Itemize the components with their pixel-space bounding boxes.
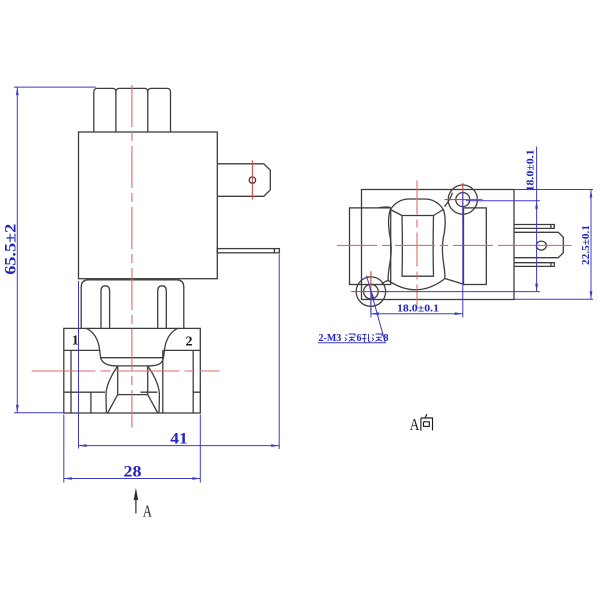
svg-text:22.5±0.1: 22.5±0.1 xyxy=(581,225,592,265)
funnel flare left xyxy=(106,366,118,413)
bottom pin tick xyxy=(550,263,552,267)
DIN connector plate (edge view) xyxy=(217,249,279,253)
view label xiang CJK xyxy=(421,414,433,430)
bottom hole crosshair vertical xyxy=(370,271,372,312)
middle spade pin hole xyxy=(536,241,546,250)
svg-text:65.5±2: 65.5±2 xyxy=(2,224,19,275)
mounting hole top-right inner xyxy=(456,193,470,207)
dim 65.5 extension line top xyxy=(14,86,96,88)
mounting hole top-right outer xyxy=(448,185,477,214)
leader text CJK shen2 xyxy=(372,334,382,341)
dim 18 vert arrow top xyxy=(535,201,538,209)
leader arrow xyxy=(370,287,375,300)
arc nut to lower-left hole boss xyxy=(382,280,388,283)
dim 18 horiz extension left xyxy=(370,297,372,318)
dim 65.5 arrow top xyxy=(16,87,19,95)
centerline horizontal (left view) xyxy=(32,370,220,372)
valve body shoulder line left xyxy=(64,349,100,351)
bell fillet left xyxy=(87,328,101,358)
dim 18 vert extension bottom xyxy=(379,291,540,293)
dim 41 arrow right xyxy=(271,444,279,447)
svg-text:8: 8 xyxy=(384,333,389,344)
hex nut barrel (end-on) xyxy=(388,199,445,290)
counterbore line right xyxy=(141,391,201,393)
dim 41 extension line right xyxy=(278,254,280,449)
dim 65.5 extension line bottom xyxy=(14,412,65,414)
view arrow A line xyxy=(135,498,137,514)
counterbore step left xyxy=(90,392,92,413)
funnel inner diagonal left xyxy=(108,395,118,413)
port 1 outer column xyxy=(70,350,72,413)
svg-text:18.0±0.1: 18.0±0.1 xyxy=(397,303,439,314)
lower hex nut left facet xyxy=(101,286,110,329)
spade terminal hole xyxy=(249,177,255,183)
DIN plate end tick xyxy=(273,249,275,253)
dim 18 vert line xyxy=(536,147,538,292)
dim 28 extension line left xyxy=(63,415,65,483)
dim 28 extension line right xyxy=(199,415,201,483)
facet diagonal left xyxy=(390,210,402,216)
dim 18 vert arrow bottom xyxy=(535,284,538,292)
mounting hole bottom-left outer xyxy=(356,277,385,306)
middle spade pin xyxy=(514,232,563,257)
spade hole centerline xyxy=(251,161,253,200)
counterbore line left xyxy=(64,391,105,393)
dim 41 line xyxy=(79,445,280,447)
valve neck right wall xyxy=(147,366,149,395)
dim 22.5 arrow top xyxy=(590,190,593,198)
dim 18 horiz extension right (long) xyxy=(462,192,464,318)
left end cap xyxy=(350,208,391,285)
right view outer rectangle xyxy=(362,190,515,300)
valve body shoulder line right xyxy=(163,349,201,351)
dim 22.5 extension bottom xyxy=(514,298,593,300)
right view centerline horizontal xyxy=(337,244,498,246)
valve neck left wall xyxy=(117,366,119,395)
top pin xyxy=(514,225,554,229)
leader text CJK shen1 xyxy=(345,334,355,341)
dim 18 vert extension top xyxy=(466,200,540,202)
dim 28 line xyxy=(64,478,201,480)
facet diagonal right xyxy=(434,210,444,216)
leader line xyxy=(318,276,385,343)
dim 28 arrow left xyxy=(64,477,72,480)
dim 41 arrow left xyxy=(79,444,87,447)
mounting hole bottom-left inner xyxy=(364,284,379,299)
bottom pin xyxy=(514,263,554,267)
dim 65.5 arrow bottom xyxy=(16,405,19,413)
yoke arc to top hole boss xyxy=(445,193,453,207)
top hole crosshair horizontal xyxy=(445,199,483,201)
port 2 inner edge xyxy=(162,350,164,413)
svg-text:2: 2 xyxy=(186,335,193,350)
lower hex nut outline xyxy=(81,280,184,329)
svg-text:A: A xyxy=(410,415,420,434)
right view centerline vertical xyxy=(416,181,418,309)
dim 18 horiz arrow left xyxy=(371,312,379,315)
hex plug (top nut, 3 faces) xyxy=(94,88,171,132)
dim 41 extension line left xyxy=(78,281,80,449)
dim 65.5 line xyxy=(16,87,18,413)
top pin tick xyxy=(550,225,552,229)
valve body outer rectangle xyxy=(64,328,201,413)
bell fillet right xyxy=(163,328,177,358)
bottom hole crosshair horizontal xyxy=(351,291,388,293)
dim 18 horiz line xyxy=(371,313,463,315)
svg-text:18.0±0.1: 18.0±0.1 xyxy=(526,149,537,191)
svg-text:28: 28 xyxy=(124,464,142,481)
dim 18 horiz arrow right xyxy=(455,312,463,315)
dim 28 arrow right xyxy=(192,477,200,480)
bell lip top line xyxy=(100,357,163,359)
hex nut inner face xyxy=(402,216,434,277)
top hole crosshair vertical xyxy=(462,183,464,218)
lower hex nut right facet xyxy=(158,286,167,329)
dim 22.5 arrow bottom xyxy=(590,291,593,299)
arc nut to right cap bottom xyxy=(445,279,464,285)
funnel inner diagonal right xyxy=(148,395,158,413)
coil body rectangle xyxy=(79,132,218,279)
svg-text:1: 1 xyxy=(72,334,79,349)
leader text CJK kong3 xyxy=(362,334,371,342)
svg-text:41: 41 xyxy=(170,430,188,447)
right end cap xyxy=(464,208,487,285)
port 2 outer column xyxy=(192,350,194,413)
valve neck bottom xyxy=(118,394,148,396)
centerline vertical (left view) xyxy=(131,85,133,428)
bell lip underside dish xyxy=(101,358,164,366)
view arrow A head xyxy=(134,488,138,500)
arc nut to left cap xyxy=(379,206,390,209)
funnel flare right xyxy=(148,366,160,413)
svg-text:6: 6 xyxy=(357,333,362,344)
svg-text:2-M3: 2-M3 xyxy=(319,333,342,344)
svg-text:A: A xyxy=(143,501,152,520)
spade terminal tab xyxy=(217,164,270,197)
dim 22.5 line xyxy=(590,190,592,300)
dim 22.5 extension top xyxy=(514,189,593,191)
